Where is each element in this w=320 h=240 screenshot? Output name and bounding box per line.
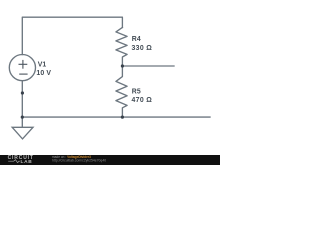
svg-text:LAB: LAB: [21, 159, 33, 165]
svg-text:R4: R4: [132, 36, 141, 43]
svg-text:470 Ω: 470 Ω: [132, 97, 153, 104]
svg-text:330 Ω: 330 Ω: [132, 45, 153, 52]
svg-text:10 V: 10 V: [36, 70, 51, 77]
svg-text:V1: V1: [38, 61, 47, 68]
svg-text:R5: R5: [132, 88, 141, 95]
svg-text:http://circuitlab.com/c2yk254e: http://circuitlab.com/c2yk254e70q40: [52, 159, 106, 163]
